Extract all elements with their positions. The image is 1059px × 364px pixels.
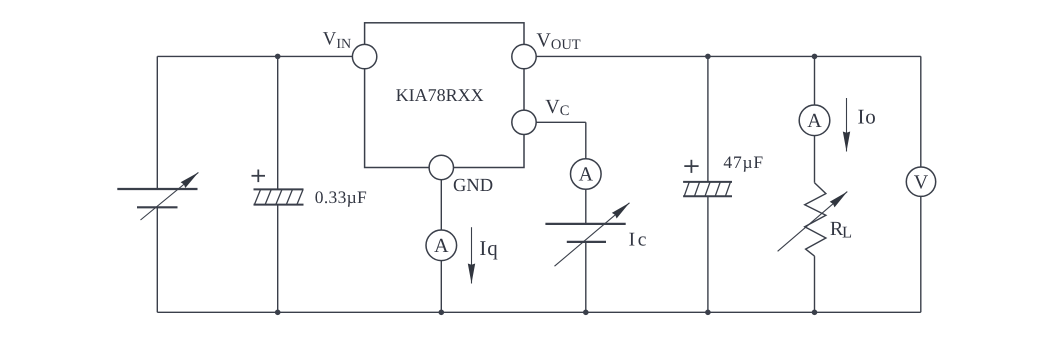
current arrow Iq [471, 227, 473, 283]
wire C2 branch lower [707, 196, 709, 312]
svg-text:GND: GND [453, 176, 493, 196]
svg-text:I: I [479, 236, 486, 260]
svg-text:V: V [914, 171, 929, 193]
node bottom C2 [705, 310, 711, 316]
battery BT1 short plate [137, 206, 178, 208]
svg-text:VC: VC [545, 96, 569, 119]
battery BT1 variability arrow [141, 172, 199, 220]
node top C2 [705, 54, 711, 60]
capacitor C1 hatch [254, 189, 303, 204]
wire VC branch vertical lower [585, 242, 587, 312]
wire C1 branch upper [277, 56, 279, 189]
svg-text:A: A [434, 235, 449, 257]
pin VOUT circle [512, 44, 536, 68]
node bottom Ic [583, 310, 589, 316]
wire GND branch [440, 168, 442, 313]
svg-text:A: A [579, 164, 594, 186]
capacitor C1 top plate [254, 188, 304, 190]
svg-text:VOUT: VOUT [536, 30, 580, 53]
node bottom GND [439, 310, 445, 316]
C1 polarity plus [252, 170, 266, 183]
voltmeter V1 [906, 167, 935, 196]
wire left branch lower [156, 207, 158, 312]
wire top rail left (VIN rail) [157, 55, 364, 57]
source V2 (Ic) long plate [545, 223, 625, 225]
svg-text:A: A [807, 110, 822, 132]
wire VC branch vertical upper [585, 122, 587, 224]
svg-text:0.33µF: 0.33µF [315, 187, 367, 207]
wire C1 branch lower [277, 205, 279, 313]
wire left branch upper [156, 56, 158, 189]
node top C1 [275, 54, 281, 60]
node bottom C1 [275, 310, 281, 316]
wire C2 branch upper [707, 56, 709, 181]
wire VC branch horizontal [524, 121, 586, 123]
node top load [812, 54, 818, 60]
source V2 short plate [567, 241, 606, 243]
resistor RL zigzag [805, 183, 826, 256]
svg-text:I: I [858, 105, 865, 129]
pin GND circle [429, 155, 453, 179]
svg-text:KIA78RXX: KIA78RXX [396, 85, 484, 105]
ammeter A2 (Ic) [571, 159, 602, 190]
resistor RL variability arrow [778, 192, 848, 252]
wire bottom rail (common) [157, 311, 921, 313]
svg-text:q: q [487, 236, 498, 260]
svg-text:47µF: 47µF [723, 152, 764, 172]
pin VC circle [512, 110, 536, 134]
node bottom load [812, 310, 818, 316]
regulator U1 KIA78RXX box [365, 23, 524, 168]
wire top rail right (VOUT rail) [524, 55, 921, 57]
wire load branch lower [814, 256, 816, 312]
ammeter A3 (Io) [799, 105, 830, 136]
source V2 variability arrow [555, 203, 630, 266]
svg-text:RL: RL [830, 218, 852, 241]
capacitor C2 bottom plate [683, 195, 732, 197]
current arrow Io [846, 98, 848, 152]
wire right branch (voltmeter) [920, 56, 922, 312]
ammeter A1 (Iq) [426, 230, 457, 261]
svg-text:c: c [638, 230, 647, 251]
capacitor C2 top plate [683, 181, 732, 183]
junction node dots [275, 54, 817, 316]
capacitor C1 bottom plate [254, 204, 304, 206]
svg-text:I: I [629, 230, 636, 251]
capacitor C2 hatch [684, 182, 730, 196]
svg-text:VIN: VIN [323, 28, 352, 51]
pin VIN circle [352, 44, 376, 68]
wire load branch upper [814, 56, 816, 182]
C2 polarity plus [684, 160, 698, 173]
svg-text:o: o [865, 105, 876, 129]
battery BT1 variable source long plate [117, 188, 197, 190]
